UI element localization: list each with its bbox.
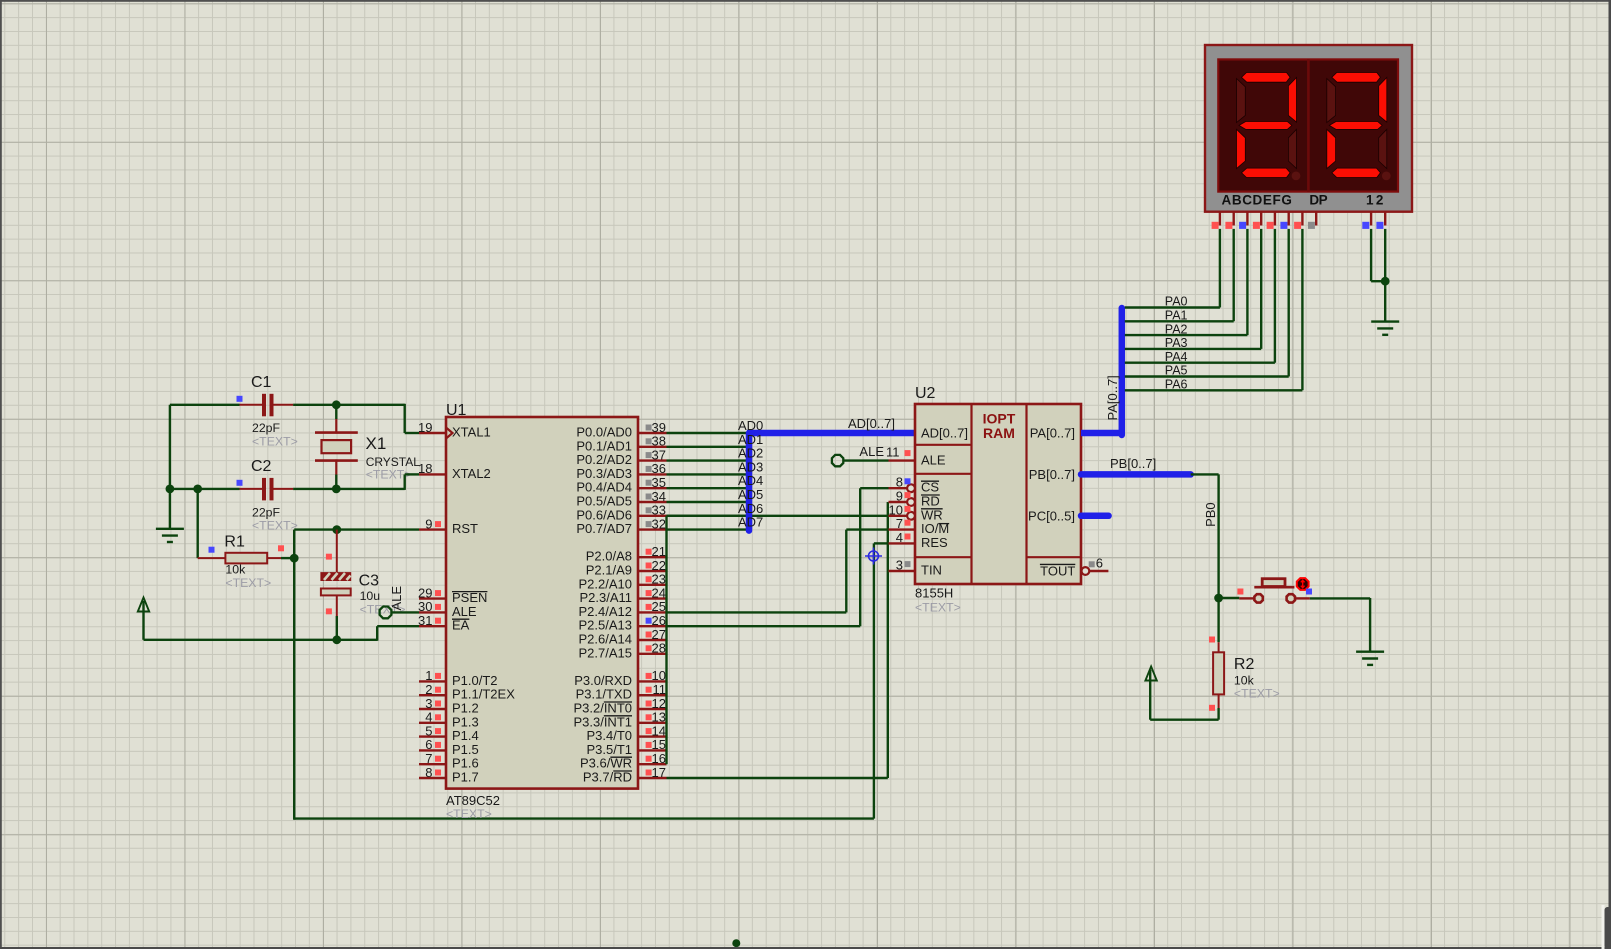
- svg-text:35: 35: [652, 475, 666, 490]
- svg-text:CS: CS: [921, 480, 939, 495]
- svg-text:<TEXT>: <TEXT>: [1234, 686, 1280, 700]
- svg-text:33: 33: [652, 503, 666, 518]
- svg-text:P3.6/WR: P3.6/WR: [580, 756, 632, 771]
- wire A to PA0: [1219, 229, 1221, 308]
- svg-text:PC[0..5]: PC[0..5]: [1028, 508, 1075, 523]
- junction commons: [1381, 277, 1390, 286]
- svg-text:<TEXT>: <TEXT>: [446, 807, 492, 821]
- C2 probe marker: [237, 480, 243, 486]
- svg-text:PA4: PA4: [1165, 350, 1188, 364]
- wire D to PA3: [1260, 229, 1262, 349]
- svg-text:TOUT: TOUT: [1040, 563, 1075, 578]
- svg-text:PA5: PA5: [1165, 364, 1188, 378]
- svg-text:36: 36: [652, 461, 666, 476]
- svg-text:EA: EA: [452, 618, 470, 633]
- svg-text:6: 6: [1096, 556, 1103, 571]
- U1 XTAL1 clock chevron: [446, 428, 453, 439]
- marker crosshair: [865, 548, 882, 565]
- wire ground stem: [169, 489, 171, 529]
- U1 pin 2 (P1.1/T2EX): [419, 694, 446, 696]
- svg-text:PB[0..7]: PB[0..7]: [1029, 467, 1075, 482]
- svg-text:13: 13: [652, 710, 666, 725]
- svg-text:<TEXT>: <TEXT>: [225, 576, 271, 590]
- svg-text:P0.0/AD0: P0.0/AD0: [576, 425, 632, 440]
- svg-text:PSEN: PSEN: [452, 590, 487, 605]
- svg-text:P0.6/AD6: P0.6/AD6: [576, 507, 632, 522]
- svg-text:32: 32: [652, 516, 666, 531]
- svg-text:<TEXT>: <TEXT>: [252, 434, 298, 448]
- switch actuator button: [1297, 578, 1309, 590]
- svg-text:8: 8: [425, 765, 432, 780]
- wire net IO/M (P2.4 to U2 IO/M): [667, 611, 847, 613]
- junction PB0: [1214, 594, 1223, 603]
- svg-text:P3.3/INT1: P3.3/INT1: [573, 714, 632, 729]
- U1 pin 25 (P2.4/A12): [638, 611, 667, 613]
- svg-text:22pF: 22pF: [252, 421, 281, 435]
- wire G to PA6: [1301, 229, 1303, 390]
- svg-text:P1.6: P1.6: [452, 756, 479, 771]
- svg-text:P2.2/A10: P2.2/A10: [579, 576, 633, 591]
- U1 pin 3 (P1.2): [419, 708, 446, 710]
- svg-text:P2.0/A8: P2.0/A8: [586, 549, 632, 564]
- U1 pin 19 (XTAL1): [419, 432, 446, 434]
- junction C3 top: [332, 525, 341, 534]
- wire PB0 to switch: [1219, 597, 1240, 599]
- wire net XTAL2 bottom rail: [170, 488, 240, 490]
- U1 pin 29 (PSEN): [419, 597, 446, 599]
- capacitor C1: [240, 404, 263, 406]
- svg-text:P3.5/T1: P3.5/T1: [586, 742, 632, 757]
- svg-text:P0.3/AD3: P0.3/AD3: [576, 466, 632, 481]
- svg-text:18: 18: [418, 461, 432, 476]
- wire net CS (P2.5 to U2 CS): [667, 625, 861, 627]
- U1 pin 31 (EA): [419, 625, 446, 627]
- U2 pin 10 (WR): [907, 512, 915, 520]
- capacitor C3: [336, 530, 338, 573]
- U1 pin 24 (P2.3/A11): [638, 597, 667, 599]
- svg-text:6: 6: [425, 737, 432, 752]
- svg-text:3: 3: [896, 558, 903, 573]
- wire net EA: [144, 639, 378, 641]
- svg-text:X1: X1: [366, 434, 387, 453]
- display digit 1 (showing 2): [1237, 79, 1246, 123]
- display pin D: [1260, 212, 1262, 226]
- U1 pin 16 (P3.6/WR): [638, 763, 667, 765]
- R1 probe markers: [209, 547, 215, 553]
- svg-text:4: 4: [896, 530, 903, 545]
- U1 pin 5 (P1.4): [419, 735, 446, 737]
- svg-text:AD[0..7]: AD[0..7]: [921, 426, 968, 441]
- svg-text:P2.3/A11: P2.3/A11: [579, 590, 632, 605]
- wire P0.0..P0.7 to AD bus: [667, 432, 748, 434]
- U1 pin 21 (P2.0/A8): [638, 556, 667, 558]
- svg-text:AD4: AD4: [738, 473, 763, 488]
- svg-text:<TEXT>: <TEXT>: [915, 601, 961, 615]
- svg-text:P1.5: P1.5: [452, 742, 479, 757]
- svg-text:1: 1: [1366, 193, 1374, 208]
- wire C to PA2: [1246, 229, 1248, 335]
- svg-text:27: 27: [652, 627, 666, 642]
- svg-text:P2.6/A14: P2.6/A14: [579, 632, 633, 647]
- wire left rail vertical: [169, 405, 171, 489]
- svg-text:P1.3: P1.3: [452, 714, 479, 729]
- U1 pin 7 (P1.6): [419, 763, 446, 765]
- wire X1 bottom stub: [335, 475, 337, 490]
- svg-text:P2.7/A15: P2.7/A15: [579, 645, 633, 660]
- svg-text:PB[0..7]: PB[0..7]: [1110, 456, 1156, 471]
- svg-text:29: 29: [418, 585, 432, 600]
- svg-text:26: 26: [652, 613, 666, 628]
- svg-text:AD1: AD1: [738, 432, 763, 447]
- svg-text:PA[0..7]: PA[0..7]: [1030, 426, 1075, 441]
- U1 pin 11 (P3.1/TXD): [638, 694, 667, 696]
- svg-text:4: 4: [425, 710, 432, 725]
- svg-text:34: 34: [652, 489, 666, 504]
- terminal ALE (U2 side): [832, 455, 843, 466]
- svg-text:U1: U1: [446, 402, 467, 419]
- svg-text:10: 10: [652, 668, 666, 683]
- svg-text:XTAL1: XTAL1: [452, 425, 491, 440]
- wire switch to ground: [1310, 597, 1370, 599]
- bus AD[0..7]: [746, 433, 753, 531]
- power terminal (R2): [1145, 667, 1156, 681]
- svg-text:7: 7: [896, 516, 903, 531]
- svg-text:R1: R1: [224, 534, 245, 551]
- svg-text:AD5: AD5: [738, 487, 763, 502]
- wire R1 left vertical: [196, 489, 198, 558]
- svg-text:P3.1/TXD: P3.1/TXD: [576, 687, 632, 702]
- svg-text:24: 24: [652, 585, 666, 600]
- svg-text:C3: C3: [359, 572, 380, 589]
- U1 pin 17 (P3.7/RD): [638, 777, 667, 779]
- U1 pin 1 (P1.0/T2): [419, 680, 446, 682]
- svg-text:<TEXT>: <TEXT>: [252, 518, 298, 532]
- svg-text:2: 2: [425, 682, 432, 697]
- display pin 1 (common): [1370, 212, 1372, 226]
- U2 pin 8 (CS): [907, 484, 915, 492]
- display frame: [1205, 45, 1412, 212]
- U2 pin 7 (IO/M): [889, 528, 916, 530]
- wire net PB0: [1191, 473, 1219, 475]
- U2 pin 4 (RES): [889, 542, 916, 544]
- wire F to PA5: [1287, 229, 1289, 377]
- svg-text:ALE: ALE: [859, 444, 884, 459]
- svg-text:39: 39: [652, 420, 666, 435]
- svg-text:8155H: 8155H: [915, 586, 953, 601]
- terminal ALE (U1 side): [380, 607, 392, 619]
- C1 probe marker: [237, 396, 243, 402]
- svg-text:R2: R2: [1234, 656, 1255, 673]
- svg-text:RD: RD: [921, 494, 940, 509]
- svg-text:AD[0..7]: AD[0..7]: [848, 416, 895, 431]
- U1 pin 18 (XTAL2): [419, 473, 446, 475]
- wire net RST: [293, 530, 295, 559]
- U1 pin 26 (P2.5/A13): [638, 625, 667, 627]
- svg-text:22: 22: [652, 558, 666, 573]
- svg-text:P2.1/A9: P2.1/A9: [586, 563, 632, 578]
- svg-text:P3.0/RXD: P3.0/RXD: [574, 673, 632, 688]
- U1 pin 23 (P2.2/A10): [638, 584, 667, 586]
- U1 pin 37 (P0.2/AD2): [638, 459, 667, 461]
- bus PC[0..5]: [1081, 513, 1109, 520]
- svg-text:P2.5/A13: P2.5/A13: [579, 618, 633, 633]
- display pin B: [1232, 212, 1234, 226]
- svg-text:ALE: ALE: [452, 604, 477, 619]
- svg-text:P1.0/T2: P1.0/T2: [452, 673, 498, 688]
- svg-text:3: 3: [425, 696, 432, 711]
- svg-text:AD3: AD3: [738, 459, 763, 474]
- U1 pin 10 (P3.0/RXD): [638, 680, 667, 682]
- display pin F: [1287, 212, 1289, 226]
- svg-text:PA3: PA3: [1165, 336, 1188, 350]
- svg-text:31: 31: [418, 613, 432, 628]
- U1 pin 30 (ALE): [419, 611, 446, 613]
- svg-text:AD7: AD7: [738, 515, 763, 530]
- junction R1 top: [193, 485, 202, 494]
- svg-text:9: 9: [425, 516, 432, 531]
- svg-text:ALE: ALE: [389, 586, 404, 611]
- svg-text:P3.2/INT0: P3.2/INT0: [573, 701, 632, 716]
- svg-text:AD0: AD0: [738, 418, 763, 433]
- wire C3 bottom to EA rail: [336, 616, 338, 641]
- svg-text:C1: C1: [251, 374, 272, 391]
- svg-text:AT89C52: AT89C52: [446, 793, 500, 808]
- svg-text:PA0: PA0: [1165, 295, 1188, 309]
- svg-text:10k: 10k: [225, 562, 246, 576]
- junction R1 right: [290, 554, 299, 563]
- svg-text:AD2: AD2: [738, 446, 763, 461]
- svg-text:11: 11: [886, 445, 900, 460]
- U1 pin 8 (P1.7): [419, 777, 446, 779]
- svg-text:28: 28: [652, 641, 666, 656]
- U1 pin 38 (P0.1/AD1): [638, 446, 667, 448]
- chip U1 AT89C52: [446, 417, 638, 789]
- svg-text:P1.4: P1.4: [452, 728, 479, 743]
- svg-text:P1.7: P1.7: [452, 770, 479, 785]
- svg-text:10: 10: [889, 502, 903, 517]
- svg-text:PA2: PA2: [1165, 322, 1188, 336]
- svg-text:37: 37: [652, 447, 666, 462]
- svg-text:7: 7: [425, 751, 432, 766]
- ground (oscillator): [156, 528, 184, 530]
- U2 pin 3 (TIN): [889, 570, 916, 572]
- U1 pin 13 (P3.3/INT1): [638, 722, 667, 724]
- svg-text:RES: RES: [921, 535, 948, 550]
- U1 pin 36 (P0.3/AD3): [638, 473, 667, 475]
- svg-text:P3.7/RD: P3.7/RD: [583, 770, 632, 785]
- U1 pin 39 (P0.0/AD0): [638, 432, 667, 434]
- U1 pin 28 (P2.7/A15): [638, 653, 667, 655]
- svg-text:PA6: PA6: [1165, 378, 1188, 392]
- display pin G: [1301, 212, 1303, 226]
- svg-text:C2: C2: [251, 458, 272, 475]
- junction X1 bottom: [332, 485, 341, 494]
- display pin A: [1219, 212, 1221, 226]
- switch probe markers: [1237, 589, 1243, 595]
- wire X1 top stub: [335, 404, 337, 419]
- svg-text:9: 9: [896, 489, 903, 504]
- bus PB[0..7]: [1081, 471, 1191, 478]
- svg-text:15: 15: [652, 737, 666, 752]
- svg-text:17: 17: [652, 765, 666, 780]
- resistor R2: [1218, 642, 1220, 652]
- svg-text:PA1: PA1: [1165, 309, 1188, 323]
- wire common 1: [1370, 229, 1372, 281]
- svg-text:8: 8: [896, 475, 903, 490]
- U1 pin 35 (P0.4/AD4): [638, 487, 667, 489]
- svg-text:P0.4/AD4: P0.4/AD4: [576, 480, 632, 495]
- display inner panel: [1218, 59, 1398, 191]
- U1 pin 15 (P3.5/T1): [638, 749, 667, 751]
- R2 probe markers: [1209, 637, 1215, 643]
- svg-text:1: 1: [425, 668, 432, 683]
- U1 pin 12 (P3.2/INT0): [638, 708, 667, 710]
- wire E to PA4: [1274, 229, 1276, 363]
- U2 pin 9 (RD): [907, 498, 915, 506]
- svg-text:P0.7/AD7: P0.7/AD7: [576, 521, 632, 536]
- svg-text:RAM: RAM: [983, 425, 1015, 441]
- C3 probe markers: [326, 554, 332, 560]
- U1 pin 34 (P0.5/AD5): [638, 501, 667, 503]
- svg-text:DP: DP: [1309, 193, 1327, 208]
- svg-text:P0.5/AD5: P0.5/AD5: [576, 494, 632, 509]
- svg-text:P3.4/T0: P3.4/T0: [586, 728, 632, 743]
- wire B to PA1: [1232, 229, 1234, 321]
- svg-text:ABCDEFG: ABCDEFG: [1222, 193, 1293, 208]
- wire ALE to pin 30: [392, 611, 419, 613]
- svg-text:23: 23: [652, 572, 666, 587]
- wire RST down to RES link: [293, 558, 295, 820]
- svg-text:P2.4/A12: P2.4/A12: [579, 604, 633, 619]
- U1 pin 4 (P1.3): [419, 722, 446, 724]
- svg-text:U2: U2: [915, 385, 936, 402]
- svg-text:RST: RST: [452, 521, 478, 536]
- svg-text:12: 12: [652, 696, 666, 711]
- svg-text:WR: WR: [921, 507, 943, 522]
- svg-text:25: 25: [652, 599, 666, 614]
- svg-text:P0.2/AD2: P0.2/AD2: [576, 452, 632, 467]
- crystal X1: [335, 419, 337, 434]
- wire common 2 to ground: [1384, 229, 1386, 322]
- junction left rail / ground: [166, 485, 175, 494]
- junction X1 top: [332, 400, 341, 409]
- resistor R1: [198, 557, 226, 559]
- ground (display): [1371, 320, 1399, 322]
- wire R1 right to RST node: [281, 557, 294, 559]
- U2 pin 11 (ALE): [889, 459, 916, 461]
- U1 pin 32 (P0.7/AD7): [638, 528, 667, 530]
- bus PA[0..7]: [1081, 430, 1122, 437]
- svg-text:ALE: ALE: [921, 453, 946, 468]
- stray junction dot bottom: [732, 939, 740, 947]
- display pin DP: [1315, 212, 1317, 226]
- svg-text:38: 38: [652, 434, 666, 449]
- svg-text:11: 11: [653, 682, 667, 697]
- U2 pin 6 (TOUT): [1082, 567, 1090, 575]
- display pin 2 (common): [1384, 212, 1386, 226]
- svg-text:AD6: AD6: [738, 501, 763, 516]
- wire net XTAL1 top rail: [170, 404, 240, 406]
- svg-text:2: 2: [1376, 193, 1384, 208]
- U1 pin 14 (P3.4/T0): [638, 735, 667, 737]
- display digit 2 (showing 2): [1327, 79, 1336, 123]
- U1 pin 6 (P1.5): [419, 749, 446, 751]
- svg-text:P1.2: P1.2: [452, 701, 479, 716]
- display pin E: [1274, 212, 1276, 226]
- power terminal (EA): [138, 598, 149, 612]
- svg-text:30: 30: [418, 599, 432, 614]
- wire net WR (P3.6 to U2 WR): [667, 515, 889, 517]
- chip U2 8155H: [915, 404, 1081, 584]
- display pin C: [1246, 212, 1248, 226]
- svg-text:XTAL2: XTAL2: [452, 466, 491, 481]
- wire ALE to U2 pin 11: [844, 459, 889, 461]
- svg-text:P1.1/T2EX: P1.1/T2EX: [452, 687, 515, 702]
- wire R2 to power terminal: [1217, 708, 1219, 720]
- ground (switch): [1356, 651, 1384, 653]
- U1 pin 9 (RST): [419, 528, 446, 530]
- U1 pin 27 (P2.6/A14): [638, 639, 667, 641]
- svg-text:PB0: PB0: [1203, 502, 1218, 527]
- svg-text:22pF: 22pF: [252, 505, 281, 519]
- svg-text:16: 16: [652, 751, 666, 766]
- svg-text:TIN: TIN: [921, 563, 942, 578]
- svg-text:P0.1/AD1: P0.1/AD1: [576, 438, 632, 453]
- junction EA rail: [332, 635, 341, 644]
- svg-text:5: 5: [425, 723, 432, 738]
- switch (push button): [1239, 597, 1254, 599]
- svg-text:21: 21: [652, 544, 666, 559]
- wire PB0 to R2: [1217, 598, 1219, 642]
- U1 pin 33 (P0.6/AD6): [638, 515, 667, 517]
- svg-text:PA[0..7]: PA[0..7]: [1105, 375, 1120, 420]
- U1 pin 22 (P2.1/A9): [638, 570, 667, 572]
- capacitor C2: [240, 488, 263, 490]
- svg-text:10u: 10u: [360, 589, 381, 603]
- wire net RD (P3.7 to U2 RD): [667, 777, 888, 779]
- svg-text:19: 19: [418, 420, 432, 435]
- svg-text:14: 14: [652, 723, 666, 738]
